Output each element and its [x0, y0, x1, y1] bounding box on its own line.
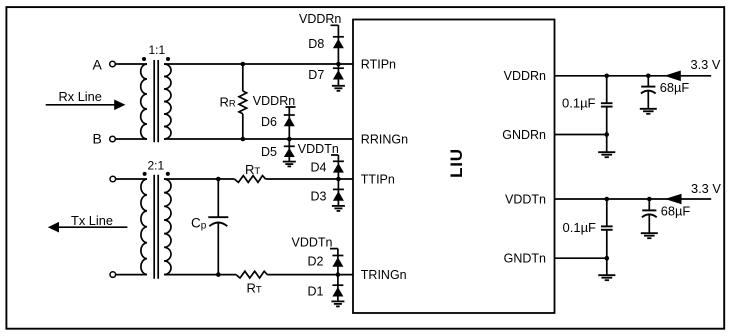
- diode D4: [311, 160, 344, 179]
- svg-text:LIU: LIU: [447, 148, 466, 178]
- junction TRING/Cp: [216, 272, 221, 277]
- junction VDDTn/C3: [605, 197, 610, 202]
- junction TTIP/D3-D4: [336, 177, 341, 182]
- diode D2: [308, 254, 344, 274]
- wire VDDRn supply: [555, 75, 712, 77]
- svg-text:VDDRn: VDDRn: [299, 12, 341, 26]
- diode D7: [308, 64, 344, 86]
- wire GNDTn: [555, 257, 607, 259]
- resistor RR: [220, 64, 247, 139]
- ground (D3): [332, 206, 345, 211]
- ground (D5): [283, 162, 296, 167]
- wire B to T1 primary: [115, 138, 147, 140]
- resistor RT (TRING): [236, 271, 267, 295]
- capacitor C2 68uF: [641, 76, 690, 109]
- svg-text:0.1µF: 0.1µF: [562, 95, 596, 110]
- svg-text:D1: D1: [308, 284, 324, 298]
- svg-text:68µF: 68µF: [660, 80, 690, 95]
- capacitor C3 0.1uF: [563, 199, 613, 258]
- capacitor C4 68uF: [642, 199, 691, 233]
- svg-text:1:1: 1:1: [149, 43, 166, 57]
- svg-text:D7: D7: [308, 68, 324, 82]
- svg-text:A: A: [93, 57, 103, 73]
- wire T2 primary top: [116, 178, 147, 180]
- diode D1: [308, 275, 344, 302]
- junction VDDRn/C1: [604, 74, 609, 79]
- svg-text:GNDRn: GNDRn: [502, 128, 546, 142]
- diode D5: [261, 139, 295, 162]
- svg-text:RRINGn: RRINGn: [361, 132, 408, 146]
- svg-text:D8: D8: [308, 37, 324, 51]
- resistor RT (TTIP): [234, 162, 265, 182]
- diode D6: [261, 115, 295, 139]
- svg-text:D6: D6: [261, 115, 277, 129]
- junction VDDRn/C2: [646, 74, 651, 79]
- transformer T1 1:1: [141, 43, 171, 142]
- junction RRING/D5-D6: [287, 137, 292, 142]
- svg-text:D3: D3: [311, 190, 327, 204]
- ground (D7): [332, 86, 345, 91]
- Tx Line arrow: [48, 213, 128, 233]
- svg-text:VDDTn: VDDTn: [505, 192, 546, 206]
- capacitor Cp: [191, 179, 228, 275]
- svg-text:3.3 V: 3.3 V: [691, 181, 721, 196]
- wire TTIPn net (left of RT): [164, 178, 234, 180]
- svg-text:RT: RT: [247, 280, 262, 295]
- wire A to T1 primary: [115, 63, 147, 65]
- junction RTIP/D7-D8: [336, 62, 341, 67]
- svg-text:Tx Line: Tx Line: [71, 213, 113, 228]
- ground (GNDRn): [598, 135, 615, 158]
- svg-text:B: B: [93, 131, 102, 147]
- svg-text:68µF: 68µF: [661, 203, 691, 218]
- svg-text:2:1: 2:1: [148, 159, 165, 173]
- junction GNDTn/ground: [605, 256, 610, 261]
- svg-text:GNDTn: GNDTn: [504, 252, 546, 266]
- net label VDDRn (RR area): [253, 94, 296, 115]
- transformer T2 2:1: [141, 159, 171, 279]
- wire T2 primary bottom: [116, 274, 147, 276]
- svg-text:VDDRn: VDDRn: [253, 94, 295, 108]
- junction GNDRn/ground: [604, 132, 609, 137]
- svg-text:TRINGn: TRINGn: [361, 268, 407, 282]
- net label VDDTn (D4 area): [298, 142, 339, 161]
- ground (D1): [331, 301, 344, 306]
- svg-text:0.1µF: 0.1µF: [563, 220, 597, 235]
- node B: [93, 131, 116, 147]
- 3.3V arrow (bottom): [665, 181, 721, 205]
- svg-text:Cp: Cp: [191, 215, 207, 231]
- junction TTIP/Cp: [216, 177, 221, 182]
- diode D8: [308, 37, 344, 64]
- svg-text:D2: D2: [308, 254, 324, 268]
- 3.3V arrow (top): [664, 57, 721, 81]
- net label VDDTn (D2 area): [292, 236, 338, 256]
- svg-text:3.3 V: 3.3 V: [691, 57, 721, 72]
- svg-text:D5: D5: [261, 145, 277, 159]
- junction RRING/RR: [241, 137, 246, 142]
- wire TRINGn net (right of RT2): [267, 274, 353, 276]
- transformer T2 2:1 terminals: [110, 176, 116, 182]
- svg-text:VDDTn: VDDTn: [298, 142, 339, 156]
- junction VDDTn/C4: [647, 197, 652, 202]
- svg-text:RTIPn: RTIPn: [361, 57, 396, 71]
- node A: [93, 57, 116, 73]
- wire VDDTn supply: [555, 198, 712, 200]
- ground (C2): [640, 109, 657, 114]
- IC U1 LIU: [353, 20, 555, 314]
- ground (C4): [641, 233, 658, 238]
- svg-text:RR: RR: [220, 94, 236, 109]
- diode D3: [311, 179, 344, 206]
- net label VDDRn (D8 area): [299, 12, 341, 37]
- capacitor C1 0.1uF: [562, 76, 613, 135]
- svg-text:D4: D4: [311, 160, 327, 174]
- wire TTIPn net (right of RT): [266, 178, 353, 180]
- svg-text:VDDTn: VDDTn: [292, 236, 333, 250]
- svg-text:VDDRn: VDDRn: [504, 69, 546, 83]
- wire TRINGn net (left of RT2): [164, 274, 236, 276]
- wire RTIPn net: [164, 63, 353, 65]
- svg-text:Rx Line: Rx Line: [59, 89, 102, 104]
- Rx Line arrow: [46, 89, 126, 110]
- wire GNDRn: [555, 134, 607, 136]
- junction TRING/D1-D2: [336, 272, 341, 277]
- junction RTIP/RR: [241, 62, 246, 67]
- ground (GNDTn): [598, 258, 615, 280]
- svg-text:TTIPn: TTIPn: [361, 172, 395, 186]
- wire RRINGn net: [164, 138, 353, 140]
